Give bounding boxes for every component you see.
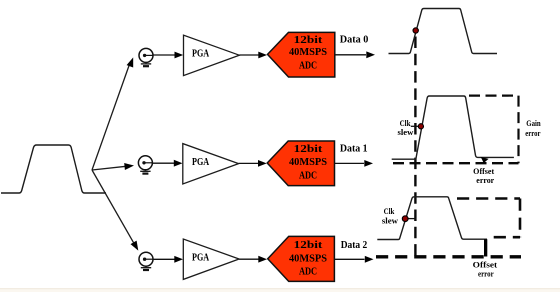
svg-text:Data 2: Data 2 — [341, 239, 368, 251]
ADC U3 — [268, 236, 335, 281]
svg-text:PGA: PGA — [192, 48, 209, 60]
tick clk slew bottom — [406, 218, 417, 220]
svg-text:Data 1: Data 1 — [340, 143, 368, 155]
connector J2 (middle source symbol) — [138, 156, 152, 174]
svg-text:slew: slew — [398, 128, 414, 137]
label Offset error bottom — [473, 261, 498, 279]
svg-text:Clk: Clk — [400, 119, 411, 128]
connector J1 (top source symbol) — [139, 48, 153, 66]
svg-text:ADC: ADC — [299, 267, 317, 278]
ground J3 — [145, 266, 147, 267]
svg-text:12bit: 12bit — [294, 35, 323, 46]
sampling dot middle — [418, 124, 423, 129]
amplifier PGA2 — [183, 144, 239, 184]
ADC U2 — [267, 141, 334, 186]
dashed ideal-pulse box bottom — [457, 199, 520, 238]
offset error arrow middle — [481, 157, 489, 163]
svg-text:error: error — [476, 176, 494, 185]
offset error bar bottom — [484, 239, 487, 256]
footer band — [0, 288, 560, 292]
ground J2 — [144, 170, 146, 171]
svg-text:40MSPS: 40MSPS — [289, 253, 327, 264]
dashed clock reference vertical line — [414, 37, 416, 257]
label Data 1 — [340, 143, 368, 155]
label Gain error — [525, 119, 541, 138]
amplifier PGA1 — [184, 35, 240, 75]
wire split to top branch — [92, 62, 130, 170]
connector J3 (bottom source symbol) — [139, 252, 153, 270]
wire J3 to PGA3 — [153, 256, 183, 263]
wire ADC3 output — [334, 256, 373, 263]
label Data 0 — [340, 34, 369, 46]
amplifier PGA3 — [183, 239, 239, 279]
ADC U1 — [268, 32, 335, 77]
output waveform Data2 — [377, 197, 487, 240]
sampling dot bottom — [402, 216, 408, 222]
svg-text:ADC: ADC — [299, 61, 317, 72]
svg-text:PGA: PGA — [192, 156, 209, 168]
label Offset error middle — [473, 167, 494, 185]
wire split to bottom branch — [92, 170, 134, 243]
input waveform — [1, 145, 106, 193]
svg-text:40MSPS: 40MSPS — [289, 157, 327, 168]
svg-text:40MSPS: 40MSPS — [289, 47, 327, 58]
svg-text:Clk: Clk — [384, 207, 395, 216]
svg-text:Gain: Gain — [526, 119, 541, 128]
thick dashed zero reference line bottom — [376, 255, 521, 258]
wire PGA3 to ADC3 — [239, 256, 267, 263]
output waveform Data0 — [389, 9, 498, 54]
node splitter — [92, 57, 138, 250]
output waveform Data1 — [392, 96, 514, 159]
wire ADC2 output — [335, 160, 374, 167]
sampling dot top — [413, 28, 418, 33]
label Clk slew bottom — [382, 207, 398, 226]
wire J2 to PGA2 — [152, 160, 182, 167]
svg-text:ADC: ADC — [299, 170, 317, 181]
svg-text:12bit: 12bit — [294, 240, 323, 251]
dashed ideal-pulse box middle (gain error box) — [393, 96, 519, 164]
svg-text:error: error — [525, 129, 541, 138]
wire PGA1 to ADC1 — [239, 52, 267, 59]
svg-text:Offset: Offset — [473, 261, 498, 270]
svg-text:slew: slew — [382, 217, 398, 226]
wire PGA2 to ADC2 — [239, 160, 267, 167]
tick clk slew middle — [411, 125, 421, 127]
label Data 2 — [341, 239, 368, 251]
ground J1 — [145, 62, 147, 63]
svg-text:PGA: PGA — [192, 252, 209, 264]
wire split to middle branch — [92, 166, 126, 170]
svg-text:Data 0: Data 0 — [340, 34, 369, 46]
wire ADC1 output — [335, 51, 375, 58]
svg-text:Offset: Offset — [473, 167, 494, 176]
svg-text:12bit: 12bit — [294, 144, 323, 155]
svg-text:error: error — [478, 269, 494, 278]
label Clk slew middle — [398, 119, 414, 137]
wire J1 to PGA1 — [153, 52, 183, 59]
